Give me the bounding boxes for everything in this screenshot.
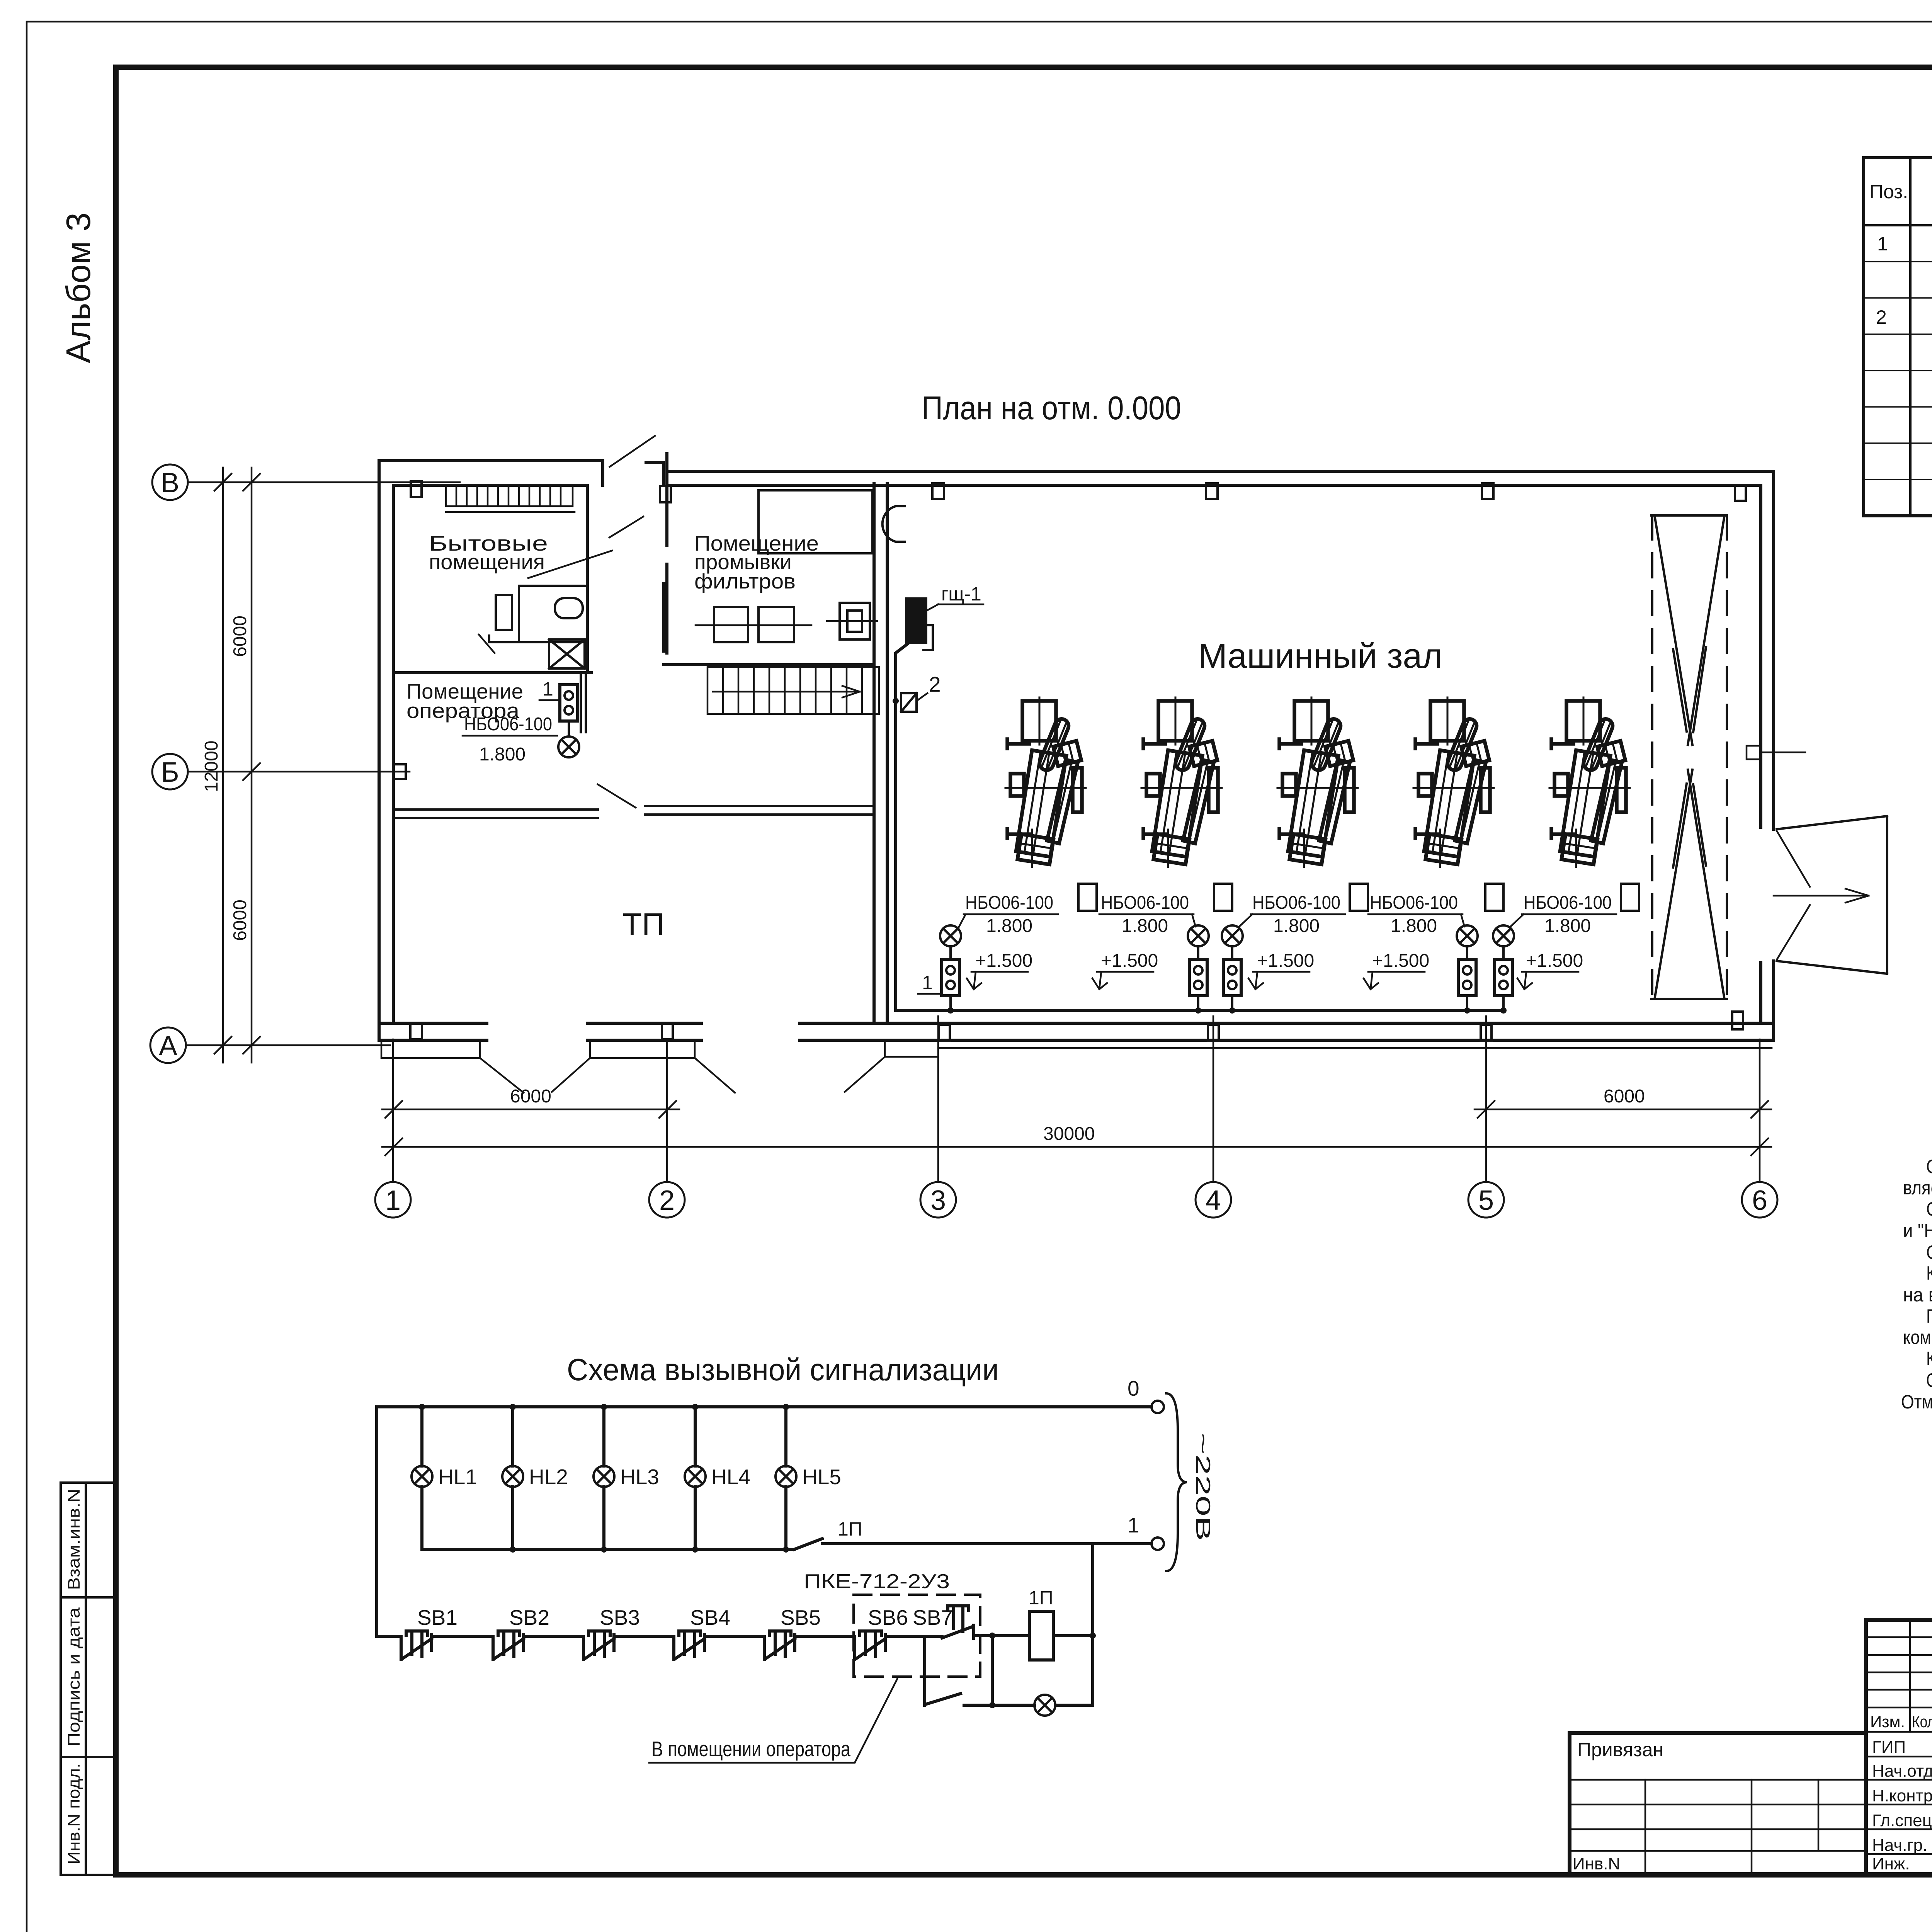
column stubs bottom wall: [410, 1012, 1743, 1041]
axis circle A: [150, 1027, 186, 1063]
porch door leaves: [1777, 831, 1810, 960]
pushbutton SB2: [493, 1631, 524, 1660]
svg-text:и "Нет вызова", установленной: и "Нет вызова", установленной в помещени…: [1903, 1220, 1932, 1242]
svg-text:фильтров: фильтров: [694, 569, 796, 593]
svg-text:6000: 6000: [510, 1086, 551, 1107]
PKE dashed enclosure: [854, 1595, 980, 1677]
column stubs top wall: [411, 481, 1746, 502]
svg-text:1.800: 1.800: [1544, 916, 1591, 936]
svg-text:6000: 6000: [230, 900, 250, 941]
compressor unit 4: [1413, 697, 1494, 867]
wire lamp return rail: [422, 1548, 794, 1551]
svg-text:НБО06-100: НБО06-100: [464, 714, 552, 735]
svg-text:SB5: SB5: [781, 1605, 821, 1629]
operator room bottom wall: [393, 810, 598, 818]
axis circle B: [152, 754, 188, 789]
svg-text:Подпись и дата: Подпись и дата: [65, 1607, 83, 1747]
svg-text:1: 1: [543, 678, 553, 700]
svg-text:2: 2: [929, 672, 941, 696]
svg-text:6000: 6000: [1604, 1086, 1645, 1107]
contact 1P on line 1: [794, 1539, 822, 1549]
technical notes text: [1901, 1156, 1932, 1413]
svg-text:Инж.: Инж.: [1872, 1854, 1910, 1873]
wire bus 0: [377, 1405, 1151, 1408]
svg-text:SB7: SB7: [913, 1605, 953, 1629]
wall fan: [883, 506, 905, 542]
door swing operator: [479, 634, 495, 653]
machine hall apron: [938, 1047, 1772, 1049]
svg-text:HL4: HL4: [711, 1465, 750, 1489]
svg-text:+1.500: +1.500: [1526, 951, 1583, 971]
door swing household: [609, 517, 643, 537]
pushbutton SB6: [855, 1631, 885, 1660]
svg-text:компрессорной станции кабелем: компрессорной станции кабелем марки АВВГ…: [1903, 1327, 1932, 1348]
svg-text:Б: Б: [161, 757, 179, 788]
wire to coil: [975, 1634, 1093, 1637]
svg-text:Изм.: Изм.: [1870, 1713, 1905, 1731]
svg-text:2: 2: [1876, 306, 1887, 328]
svg-text:В: В: [161, 468, 179, 498]
svg-text:Взам.инв.N: Взам.инв.N: [65, 1489, 83, 1590]
top wall main section: [668, 471, 1774, 485]
svg-text:НБО06-100: НБО06-100: [1101, 893, 1189, 913]
svg-text:Инв.N: Инв.N: [1573, 1854, 1620, 1873]
revision table grid: [1866, 1637, 1932, 1732]
pushbutton SB3: [583, 1631, 614, 1660]
louvre shaft: [1651, 515, 1727, 999]
svg-text:1.800: 1.800: [1391, 916, 1437, 936]
svg-text:помещения: помещения: [429, 550, 545, 574]
wire right drop: [1091, 1544, 1094, 1705]
svg-text:Нач.отд.: Нач.отд.: [1872, 1762, 1932, 1781]
pushbutton SB5: [764, 1631, 795, 1660]
compressor unit 2: [1141, 697, 1222, 867]
partition household rooms: [586, 485, 589, 673]
axis circle 3: [920, 1182, 956, 1218]
axis verticals: [393, 1016, 1760, 1182]
right outer wall: [1761, 471, 1774, 1040]
svg-text:SB1: SB1: [417, 1605, 457, 1629]
terminal 1: [1151, 1537, 1164, 1550]
bottom dim 6000 left: [382, 1109, 679, 1111]
svg-text:SB6: SB6: [868, 1605, 908, 1629]
svg-text:3: 3: [930, 1185, 946, 1216]
svg-text:НБО06-100: НБО06-100: [965, 893, 1053, 913]
auxiliary lamp: [1034, 1695, 1055, 1716]
pushbutton SB1: [401, 1631, 432, 1660]
bottom dim 6000 right: [1475, 1109, 1771, 1111]
svg-text:6000: 6000: [230, 616, 250, 657]
corridor right partition: [662, 583, 665, 651]
svg-text:А: А: [159, 1031, 177, 1061]
svg-text:Сигнал о приеме вызова ( машин: Сигнал о приеме вызова ( машинистом ) по…: [1926, 1242, 1932, 1263]
sink: [496, 595, 512, 630]
svg-text:гщ-1: гщ-1: [941, 583, 981, 605]
stair band filter room: [707, 667, 879, 714]
partition operator room top: [393, 671, 591, 674]
cable run from GShch-1: [896, 644, 1503, 1010]
wire line 1: [822, 1542, 1151, 1545]
terminal 0: [1151, 1401, 1164, 1413]
svg-text:ТП: ТП: [622, 907, 665, 942]
title block outer frame: [1866, 1620, 1932, 1875]
svg-text:4: 4: [1206, 1185, 1221, 1216]
east porch: [1777, 816, 1887, 974]
axis circle 2: [649, 1182, 685, 1218]
svg-text:Сигнальные лампы окрасить цапо: Сигнальные лампы окрасить цапоновым лако…: [1926, 1369, 1932, 1391]
junction box 2: [901, 693, 917, 712]
hall lamp group 3: [1457, 925, 1478, 1014]
svg-text:1: 1: [385, 1185, 401, 1216]
svg-text:ПКЕ-712-2У3: ПКЕ-712-2У3: [804, 1570, 950, 1593]
bottom entrance ramp 1: [381, 1040, 524, 1093]
svg-text:Кабель АВВГ-3х2,5 проложить по: Кабель АВВГ-3х2,5 проложить по стенам от…: [1926, 1348, 1932, 1369]
lamp HL5: [776, 1404, 841, 1553]
filter room bottom wall: [664, 663, 874, 666]
svg-text:1: 1: [1877, 233, 1888, 255]
axis line A: [186, 1044, 390, 1046]
leader to toilet: [528, 551, 612, 578]
auxiliary contact branch: [923, 1638, 926, 1705]
operator room wall stub: [581, 674, 586, 732]
pushbutton SB7: [942, 1606, 974, 1638]
svg-text:Н.контр.: Н.контр.: [1872, 1786, 1932, 1805]
wc bowl: [555, 598, 583, 618]
attachment area cells: [1570, 1780, 1866, 1851]
svg-text:+1.500: +1.500: [1101, 951, 1158, 971]
operator room lamp: [568, 721, 570, 736]
hall lamp group 2: [1188, 925, 1209, 1014]
svg-text:Оперативный вызов дежурным опе: Оперативный вызов дежурным оператором ма…: [1926, 1156, 1932, 1177]
svg-text:Питание памп вызывной сигнализ: Питание памп вызывной сигнализации осуще…: [1926, 1305, 1932, 1327]
vertical dim line total: [222, 468, 224, 1063]
svg-text:HL3: HL3: [620, 1465, 659, 1489]
svg-text:Схема вызывной сигнализации: Схема вызывной сигнализации: [567, 1352, 999, 1387]
lamp HL1: [412, 1404, 477, 1549]
svg-text:Отметки установки оборудования: Отметки установки оборудования и проклад…: [1901, 1391, 1932, 1413]
toilet stall: [489, 586, 585, 642]
svg-text:+1.500: +1.500: [975, 951, 1032, 971]
svg-text:ГИП: ГИП: [1872, 1738, 1906, 1757]
svg-text:В помещении оператора: В помещении оператора: [651, 1737, 850, 1761]
corridor east wall: [665, 454, 668, 653]
left outer wall: [379, 461, 393, 1040]
ventilation grille band: [446, 485, 575, 512]
svg-text:1.800: 1.800: [1122, 916, 1168, 936]
svg-text:1П: 1П: [838, 1518, 862, 1540]
filter tanks pair: [714, 607, 748, 642]
svg-text:Нач.гр.: Нач.гр.: [1872, 1836, 1927, 1855]
svg-text:1.800: 1.800: [986, 916, 1032, 936]
bottom wall: [379, 1023, 1774, 1040]
relay coil 1P: [1029, 1611, 1053, 1660]
svg-text:5: 5: [1478, 1185, 1494, 1216]
bottom dim 30000: [382, 1146, 1771, 1148]
lamp HL2: [502, 1404, 568, 1553]
svg-text:HL5: HL5: [802, 1465, 841, 1489]
svg-text:1.800: 1.800: [1273, 916, 1320, 936]
hall lamp group 1: [940, 925, 961, 1014]
svg-text:+1.500: +1.500: [1372, 951, 1429, 971]
svg-text:Машинный зал: Машинный зал: [1198, 637, 1442, 675]
svg-text:HL2: HL2: [529, 1465, 568, 1489]
bottom entrance ramp 2: [552, 1040, 735, 1093]
svg-text:Кнопки приема вызова установит: Кнопки приема вызова установить в непоср…: [1926, 1262, 1932, 1284]
svg-text:6: 6: [1752, 1185, 1767, 1216]
svg-text:Сигнал о вызове машиниста комп: Сигнал о вызове машиниста компрессорной …: [1926, 1198, 1932, 1220]
svg-text:30000: 30000: [1043, 1124, 1095, 1144]
vertical dim line segments: [251, 468, 253, 1063]
svg-text:1: 1: [922, 972, 933, 993]
axis circle 5: [1468, 1182, 1504, 1218]
svg-text:12000: 12000: [201, 741, 222, 792]
svg-text:Кол.уч.: Кол.уч.: [1912, 1713, 1932, 1731]
door swing at top entrance: [610, 436, 655, 467]
top wall left section: [379, 461, 603, 485]
panel GShch-1: [905, 597, 927, 644]
parts table frame: [1864, 158, 1932, 516]
door swing corridor: [598, 784, 636, 808]
compressor unit 5: [1549, 697, 1630, 867]
svg-text:Гл.спец.: Гл.спец.: [1872, 1811, 1932, 1830]
porch arrow: [1774, 889, 1869, 903]
compressor unit 3: [1277, 697, 1358, 867]
wire left rail: [375, 1407, 378, 1636]
svg-text:SB4: SB4: [690, 1605, 730, 1629]
svg-text:~220В: ~220В: [1192, 1433, 1214, 1541]
bottom entrance ramp 3: [845, 1040, 938, 1092]
axis line B: [188, 771, 410, 773]
svg-text:вляется вызывной сигнализацией: вляется вызывной сигнализацией из помеще…: [1903, 1177, 1932, 1199]
axis B tick right wall: [1747, 746, 1760, 759]
svg-text:1: 1: [1128, 1513, 1139, 1537]
compressor unit 1: [1005, 697, 1086, 867]
axis circle V: [152, 464, 188, 500]
column stub axis B left wall: [393, 764, 406, 779]
wall along corridor bottom: [645, 806, 874, 815]
axis circle 6: [1742, 1182, 1777, 1218]
svg-text:0: 0: [1128, 1376, 1139, 1400]
svg-text:НБО06-100: НБО06-100: [1370, 893, 1458, 913]
svg-text:SB3: SB3: [600, 1605, 640, 1629]
pushbutton SB4: [674, 1631, 704, 1660]
entrance jambs top: [603, 461, 663, 485]
wall posts between machines: [1078, 884, 1639, 911]
filter unit square: [840, 603, 870, 639]
svg-text:НБО06-100: НБО06-100: [1524, 893, 1612, 913]
svg-text:Привязан: Привязан: [1577, 1739, 1663, 1760]
svg-text:1.800: 1.800: [479, 744, 526, 765]
left stamp cells: [61, 1483, 115, 1875]
axis circle 4: [1196, 1182, 1231, 1218]
axis circle 1: [375, 1182, 411, 1218]
axis line V: [188, 481, 460, 483]
operator room call post 1: [560, 685, 578, 721]
lamp HL4: [685, 1404, 750, 1553]
svg-text:+1.500: +1.500: [1257, 951, 1314, 971]
svg-text:Альбом 3: Альбом 3: [59, 213, 97, 363]
svg-text:Инв.N подл.: Инв.N подл.: [65, 1763, 83, 1864]
svg-text:HL1: HL1: [438, 1465, 477, 1489]
svg-text:Поз.: Поз.: [1869, 181, 1908, 202]
svg-text:План на отм. 0.000: План на отм. 0.000: [922, 390, 1181, 427]
lamp HL3: [594, 1404, 659, 1553]
shaft with cross: [549, 639, 585, 668]
svg-text:на высоте 1,5м от пола.: на высоте 1,5м от пола.: [1903, 1284, 1932, 1306]
wire pushbutton bus: [377, 1635, 942, 1638]
svg-text:1П: 1П: [1029, 1587, 1053, 1609]
machine hall left wall: [874, 483, 887, 1023]
svg-text:НБО06-100: НБО06-100: [1252, 893, 1340, 913]
filter room tank: [759, 490, 872, 553]
svg-text:SB2: SB2: [509, 1605, 549, 1629]
brace 220V: [1166, 1393, 1187, 1571]
svg-text:2: 2: [659, 1185, 675, 1216]
